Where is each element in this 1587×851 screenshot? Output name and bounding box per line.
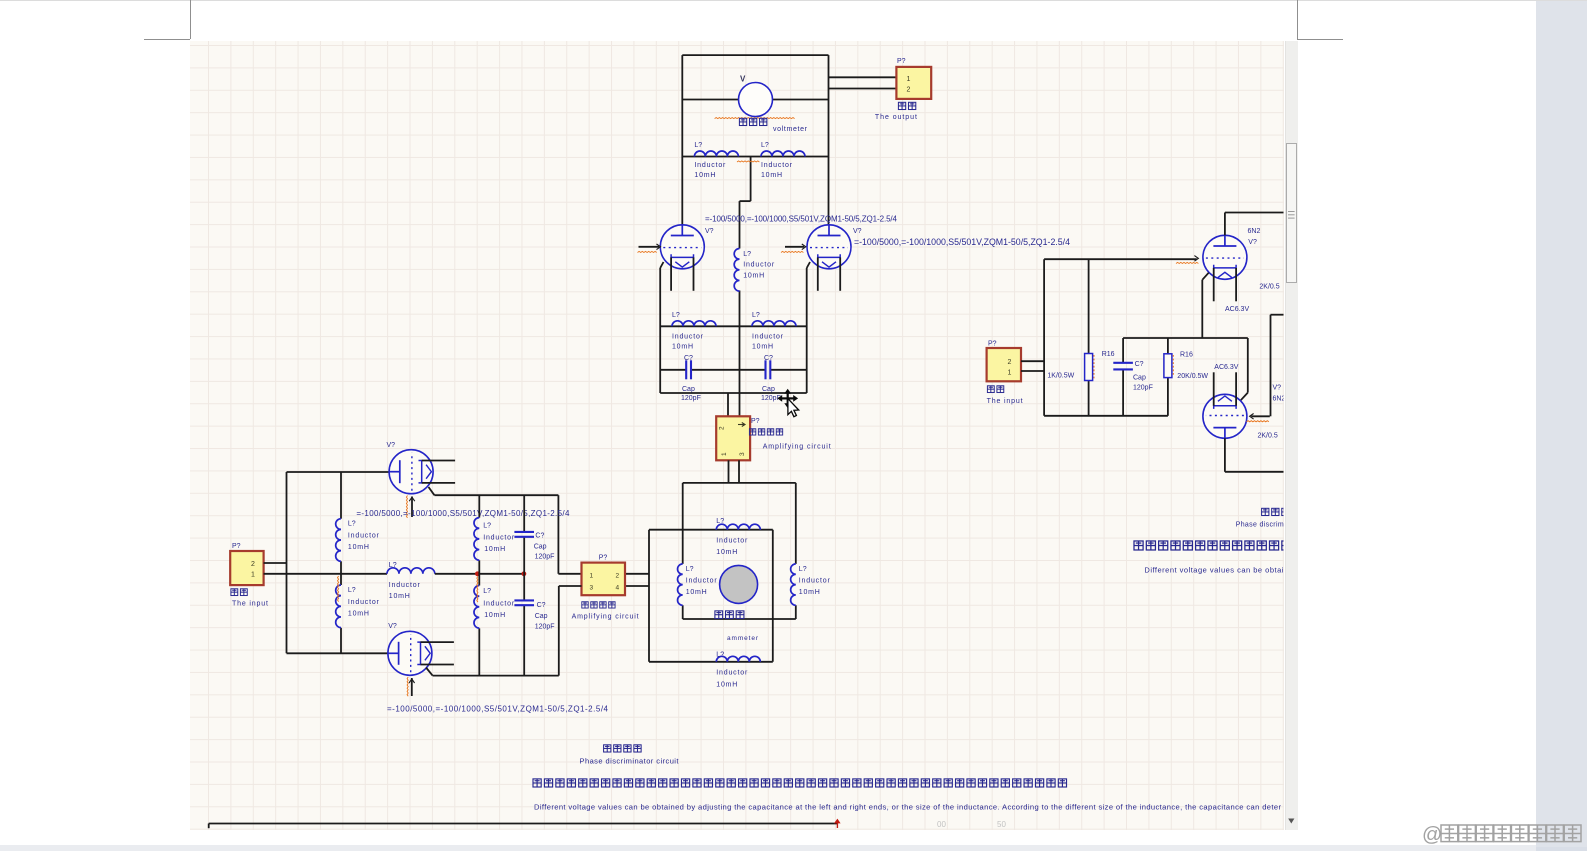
svg-text:10mH: 10mH: [672, 344, 693, 351]
svg-text:P?: P?: [988, 341, 997, 348]
svg-text:Cap: Cap: [1133, 375, 1146, 382]
svg-text:Inductor: Inductor: [743, 262, 775, 269]
svg-text:V: V: [740, 75, 746, 84]
svg-text:C?: C?: [684, 355, 693, 362]
svg-text:V?: V?: [853, 228, 862, 235]
svg-text:3: 3: [590, 585, 594, 592]
svg-text:Different voltage values can b: Different voltage values can be obtai: [1144, 566, 1283, 575]
svg-text:L?: L?: [483, 588, 491, 595]
svg-text:Inductor: Inductor: [716, 670, 748, 677]
svg-text:20K/0.5W: 20K/0.5W: [1177, 373, 1208, 380]
svg-text:Inductor: Inductor: [483, 601, 515, 608]
svg-text:Different voltage values can b: Different voltage values can be obtained…: [534, 803, 1281, 812]
svg-text:C?: C?: [537, 602, 546, 609]
svg-text:10mH: 10mH: [694, 172, 715, 179]
svg-text:R16: R16: [1102, 351, 1115, 358]
svg-text:2: 2: [1008, 359, 1012, 366]
svg-text:2K/0.5: 2K/0.5: [1259, 284, 1279, 291]
svg-text:6N2: 6N2: [1248, 228, 1261, 235]
svg-text:120pF: 120pF: [535, 624, 555, 631]
svg-text:L?: L?: [348, 521, 356, 528]
svg-text:Inductor: Inductor: [694, 162, 726, 169]
svg-text:=-100/5000,=-100/1000,S5/501V,: =-100/5000,=-100/1000,S5/501V,ZQM1-50/5,…: [387, 705, 609, 714]
svg-text:C?: C?: [1135, 361, 1144, 368]
svg-text:2: 2: [719, 426, 726, 430]
svg-text:10mH: 10mH: [348, 611, 369, 618]
svg-text:10mH: 10mH: [484, 612, 505, 619]
svg-text:10mH: 10mH: [743, 273, 764, 280]
svg-text:10mH: 10mH: [484, 546, 505, 553]
svg-text:L?: L?: [686, 566, 694, 573]
svg-text:120pF: 120pF: [535, 554, 555, 561]
svg-text:3: 3: [739, 452, 746, 456]
svg-text:10mH: 10mH: [752, 344, 773, 351]
svg-text:Inductor: Inductor: [716, 538, 748, 545]
svg-text:L?: L?: [716, 652, 724, 659]
svg-text:The input: The input: [987, 398, 1023, 405]
svg-text:V?: V?: [1273, 385, 1282, 392]
svg-text:V?: V?: [1248, 239, 1257, 246]
svg-text:V?: V?: [387, 442, 396, 449]
svg-text:L?: L?: [799, 566, 807, 573]
svg-text:L?: L?: [716, 518, 724, 525]
svg-text:50: 50: [997, 820, 1006, 829]
svg-text:The output: The output: [875, 114, 917, 121]
svg-text:1: 1: [721, 452, 728, 456]
svg-text:P?: P?: [232, 543, 241, 550]
svg-text:1: 1: [590, 573, 594, 580]
svg-text:AC6.3V: AC6.3V: [1225, 306, 1249, 313]
svg-text:Phase discrim: Phase discrim: [1236, 522, 1284, 529]
svg-text:Inductor: Inductor: [389, 582, 421, 589]
svg-text:10mH: 10mH: [348, 544, 369, 551]
svg-text:2K/0.5: 2K/0.5: [1258, 433, 1278, 440]
svg-text:00: 00: [937, 820, 946, 829]
svg-text:Inductor: Inductor: [686, 578, 718, 585]
svg-text:Cap: Cap: [762, 386, 775, 393]
svg-text:L?: L?: [761, 142, 769, 149]
svg-text:L?: L?: [694, 142, 702, 149]
svg-text:L?: L?: [389, 562, 397, 569]
svg-text:L?: L?: [743, 251, 751, 258]
svg-text:Inductor: Inductor: [483, 535, 515, 542]
svg-text:Inductor: Inductor: [348, 599, 380, 606]
svg-text:Cap: Cap: [535, 613, 548, 620]
svg-text:1: 1: [1008, 370, 1012, 377]
svg-text:2: 2: [616, 573, 620, 580]
svg-text:2: 2: [251, 561, 255, 568]
svg-text:120pF: 120pF: [681, 395, 701, 402]
svg-text:V?: V?: [388, 623, 397, 630]
svg-text:1K/0.5W: 1K/0.5W: [1047, 373, 1074, 380]
svg-text:=-100/5000,=-100/1000,S5/501V,: =-100/5000,=-100/1000,S5/501V,ZQM1-50/5,…: [854, 237, 1070, 247]
svg-text:L?: L?: [348, 587, 356, 594]
svg-text:L?: L?: [483, 523, 491, 530]
svg-text:ammeter: ammeter: [727, 635, 759, 642]
svg-text:Inductor: Inductor: [752, 334, 784, 341]
svg-text:R16: R16: [1180, 352, 1193, 359]
svg-text:L?: L?: [672, 312, 680, 319]
svg-text:Cap: Cap: [534, 544, 547, 551]
svg-text:1: 1: [251, 572, 255, 579]
svg-text:=-100/5000,=-100/1000,S5/501V,: =-100/5000,=-100/1000,S5/501V,ZQM1-50/5,…: [705, 215, 898, 224]
svg-text:Cap: Cap: [682, 386, 695, 393]
svg-text:C?: C?: [764, 355, 773, 362]
svg-text:=-100/5000,=-100/1000,S5/501V,: =-100/5000,=-100/1000,S5/501V,ZQM1-50/5,…: [356, 509, 570, 518]
svg-text:2: 2: [907, 87, 911, 94]
svg-text:120pF: 120pF: [1133, 385, 1153, 392]
svg-text:10mH: 10mH: [716, 682, 737, 689]
svg-text:P?: P?: [751, 418, 760, 425]
svg-text:@: @: [1422, 824, 1442, 846]
svg-text:10mH: 10mH: [389, 593, 410, 600]
svg-text:10mH: 10mH: [761, 172, 782, 179]
svg-text:10mH: 10mH: [716, 549, 737, 556]
svg-text:Inductor: Inductor: [799, 578, 831, 585]
svg-text:Inductor: Inductor: [672, 334, 704, 341]
svg-text:Amplifying circuit: Amplifying circuit: [763, 444, 831, 451]
svg-text:10mH: 10mH: [686, 589, 707, 596]
svg-text:voltmeter: voltmeter: [773, 126, 808, 133]
svg-text:10mH: 10mH: [799, 589, 820, 596]
svg-text:L?: L?: [752, 312, 760, 319]
svg-text:P?: P?: [599, 555, 608, 562]
svg-text:1: 1: [907, 76, 911, 83]
svg-text:Amplifying circuit: Amplifying circuit: [572, 614, 639, 621]
svg-text:AC6.3V: AC6.3V: [1214, 364, 1238, 371]
svg-text:P?: P?: [897, 58, 906, 65]
svg-text:6N2: 6N2: [1273, 396, 1286, 403]
svg-text:Inductor: Inductor: [348, 533, 380, 540]
svg-text:4: 4: [616, 585, 620, 592]
svg-text:The input: The input: [232, 601, 268, 608]
svg-text:Inductor: Inductor: [761, 162, 793, 169]
svg-text:Phase discriminator circuit: Phase discriminator circuit: [580, 757, 680, 766]
svg-text:C?: C?: [535, 533, 544, 540]
svg-text:V?: V?: [705, 228, 714, 235]
